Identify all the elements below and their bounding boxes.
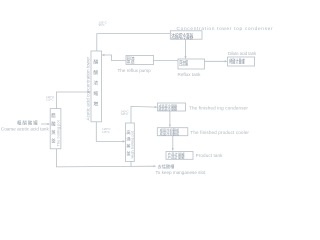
high boiling pot box xyxy=(126,123,135,162)
svg-text:Acetic acid concentration towe: Acetic acid concentration tower xyxy=(86,56,91,120)
arrowhead into finished condenser A xyxy=(155,106,158,108)
svg-text:Product tank: Product tank xyxy=(196,153,224,158)
svg-text:Reflux tank: Reflux tank xyxy=(178,72,202,77)
wire: feed arrow from coarse acetic acid tank xyxy=(41,123,48,125)
arrowhead into tower from pot vapor line xyxy=(88,91,91,93)
svg-text:成品液冷凝器: 成品液冷凝器 xyxy=(159,107,178,112)
svg-text:High boiling pot: High boiling pot xyxy=(130,130,135,158)
arrowhead A to B xyxy=(169,125,171,128)
arrowhead into dilute acid tank xyxy=(225,60,228,62)
wire: reflux tank to reflux pump xyxy=(154,60,179,62)
svg-text:塔: 塔 xyxy=(93,101,98,108)
svg-text:Dilute acid tank: Dilute acid tank xyxy=(228,51,257,56)
finished product cooler box B xyxy=(157,128,188,136)
tower box (acid concentration tower) xyxy=(91,51,102,122)
reflux tank box xyxy=(178,59,205,69)
tower stacked Chinese: 醋酸浓缩精馏塔 xyxy=(93,59,98,108)
condenser box (concentration tower condenser) xyxy=(170,31,202,39)
svg-text:110°C: 110°C xyxy=(46,98,53,102)
svg-text:The reflux pump: The reflux pump xyxy=(118,68,152,73)
svg-text:The finished product cooler: The finished product cooler xyxy=(190,130,249,135)
svg-text:The finished ing condenser: The finished ing condenser xyxy=(189,105,248,110)
svg-text:泵送: 泵送 xyxy=(127,59,136,64)
svg-text:浓: 浓 xyxy=(93,80,98,87)
wire: tower bottoms to high boiling pot xyxy=(96,122,123,142)
boiling pot box (left) xyxy=(50,109,61,149)
finished condenser box A xyxy=(158,103,186,111)
arrowhead into tower from pump line xyxy=(102,54,105,56)
wire: tower top vapor line to condenser xyxy=(97,34,171,51)
wire: high boiler vapor to finished condenser xyxy=(131,106,156,122)
product tank box C xyxy=(166,152,193,160)
svg-text:缩: 缩 xyxy=(93,90,98,97)
svg-text:粗醋酸罐: 粗醋酸罐 xyxy=(17,119,39,126)
reflux pump box xyxy=(126,56,154,65)
arrowhead drain to manganese slot xyxy=(154,165,157,167)
svg-text:浓缩塔冷凝器: 浓缩塔冷凝器 xyxy=(171,31,193,40)
svg-text:115°C: 115°C xyxy=(102,130,110,134)
wire: cooler B to product tank C xyxy=(172,136,174,149)
svg-text:130°C: 130°C xyxy=(121,112,129,116)
svg-text:96°C: 96°C xyxy=(99,23,105,27)
svg-text:产品计量罐: 产品计量罐 xyxy=(168,155,186,160)
wire: condenser A to cooler B xyxy=(169,111,171,126)
boiling pot stacked Chinese: 醋酸蒸馏釜 xyxy=(51,112,56,144)
arrowhead into high boiling pot xyxy=(123,140,126,142)
arrowhead B to C xyxy=(172,148,174,151)
svg-text:成品冷却器成: 成品冷却器成 xyxy=(160,131,180,136)
wire: reflux pump back into tower xyxy=(104,55,127,61)
wire: high boiler bottom junction to drain xyxy=(130,162,132,167)
svg-text:The boiling pot: The boiling pot xyxy=(55,119,60,146)
wire: condenser outlet down to reflux tank xyxy=(185,39,187,57)
wire: boiling pot vapor riser to tower xyxy=(56,92,89,109)
arrowhead feed into boiling pot xyxy=(47,123,50,125)
arrowhead into reflux tank xyxy=(184,56,186,59)
svg-text:稀酸计量罐: 稀酸计量罐 xyxy=(229,58,245,66)
svg-text:酸: 酸 xyxy=(93,69,98,76)
svg-text:醋: 醋 xyxy=(51,112,56,119)
svg-text:回流罐: 回流罐 xyxy=(179,60,188,68)
dilute acid tank box xyxy=(228,57,255,66)
svg-text:Coarse acetic acid tank: Coarse acetic acid tank xyxy=(1,127,49,132)
svg-text:Concentration tower top conden: Concentration tower top condenser xyxy=(177,26,274,32)
svg-text:醋: 醋 xyxy=(93,59,98,66)
wire: reflux tank to dilute acid tank xyxy=(205,60,226,62)
svg-text:To keep manganese slot: To keep manganese slot xyxy=(156,170,207,175)
high boiling pot stacked Chinese: 高沸蒸馏釜 xyxy=(126,129,131,156)
wire: bottoms drain line to manganese slot xyxy=(56,149,153,167)
